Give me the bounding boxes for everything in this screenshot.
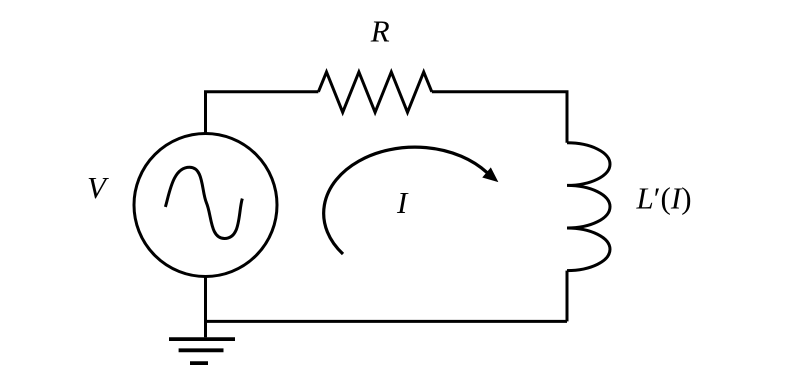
ground	[169, 339, 235, 363]
wire bottom	[206, 320, 568, 323]
AC source sine wave	[165, 167, 242, 238]
wire top-left (source top to resistor)	[206, 92, 319, 134]
resistor R	[318, 72, 431, 112]
svg-text:I: I	[396, 185, 409, 220]
svg-text:V: V	[87, 170, 109, 205]
wire bottom-right (inductor bottom to corner)	[566, 271, 569, 322]
svg-text:R: R	[370, 13, 390, 48]
wire top-right (resistor to inductor top)	[432, 92, 567, 143]
inductor L coil	[567, 143, 610, 271]
current arrow head	[483, 168, 497, 181]
wire source bottom to ground	[204, 277, 207, 338]
AC source V circle	[134, 134, 277, 277]
svg-text:L′(I): L′(I)	[636, 181, 692, 216]
current arrow arc	[324, 147, 487, 254]
